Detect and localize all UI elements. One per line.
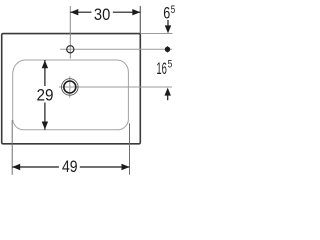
- svg-text:49: 49: [62, 158, 78, 176]
- dimension 29: line: [44, 60, 46, 130]
- dimension 30: right arrow: [132, 9, 140, 15]
- dimension 49: left arrow: [12, 164, 20, 170]
- dimension 6.5: stem and down arrow: [165, 20, 171, 33]
- svg-text:5: 5: [168, 59, 173, 71]
- drain centerline horizontal to right arrow: [59, 86, 172, 88]
- tap hole circle: [67, 46, 74, 53]
- dimension 6.5: label: [163, 4, 175, 23]
- svg-text:5: 5: [171, 4, 176, 16]
- svg-text:6: 6: [163, 5, 170, 23]
- dimension 49: right extension line: [129, 123, 131, 175]
- dimension 49: label: [62, 158, 78, 176]
- drain outer circle: [62, 79, 79, 96]
- svg-text:30: 30: [94, 6, 110, 24]
- dimension 29: down arrow: [42, 122, 48, 130]
- drain crosshair vertical: [69, 76, 71, 97]
- bowl inner outline: [13, 60, 129, 130]
- dimension 16.5: dot terminator on tap centerline: [165, 46, 170, 52]
- top edge extension line right (for dim 6.5): [141, 33, 172, 35]
- dimension 16.5: label: [156, 59, 172, 79]
- dimension 49: line: [12, 166, 129, 168]
- tap hole crosshair vertical (extension line from dim 30 through tap hole): [69, 6, 71, 59]
- drain inner circle: [64, 81, 76, 93]
- dimension 49: right arrow: [122, 164, 130, 170]
- dimension 30: line: [70, 11, 140, 13]
- dimension 29: up arrow: [42, 60, 48, 68]
- dimension 30: label: [94, 6, 110, 24]
- svg-text:29: 29: [37, 87, 54, 105]
- right edge extension line up (for dim 30): [139, 6, 141, 33]
- svg-text:16: 16: [156, 60, 167, 78]
- dimension 29: label: [35, 87, 55, 105]
- dimension 30: left arrow: [70, 9, 78, 15]
- dimension 16.5: up arrow and stem at drain centerline: [165, 88, 171, 101]
- tap hole centerline horizontal to right dot: [60, 48, 172, 50]
- dimension 49: left extension line: [11, 120, 13, 175]
- basin outer edge: [2, 34, 141, 144]
